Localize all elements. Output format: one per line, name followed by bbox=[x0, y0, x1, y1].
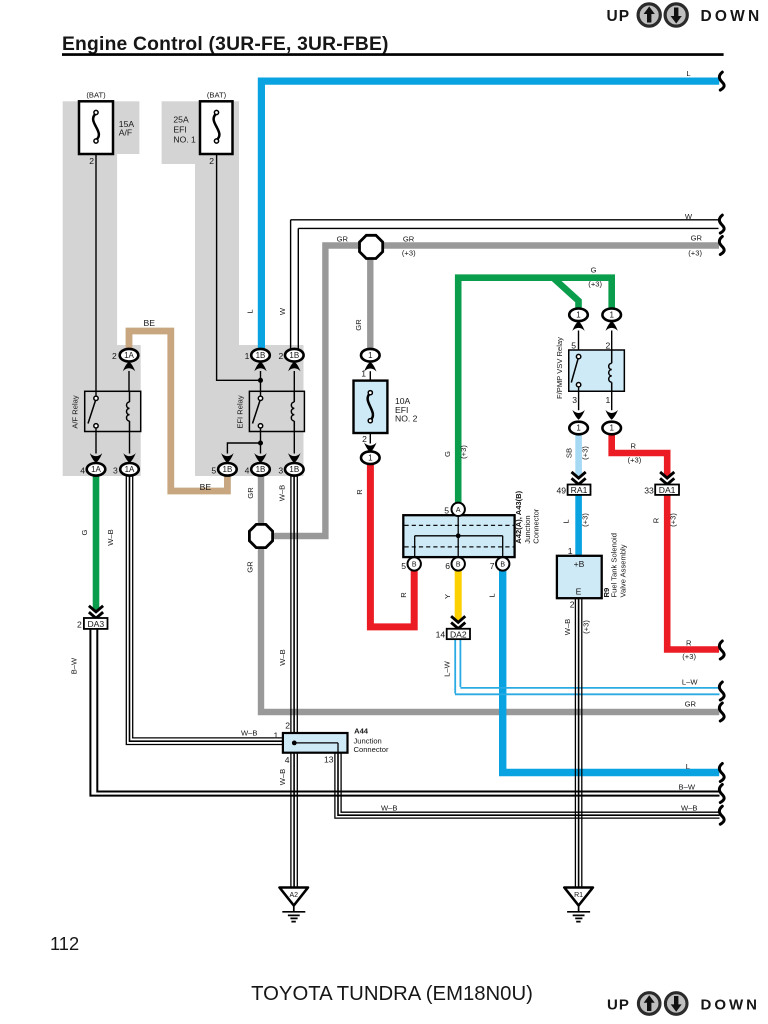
svg-text:SB: SB bbox=[565, 448, 574, 458]
svg-text:NO. 1: NO. 1 bbox=[173, 135, 196, 145]
shading block EFI relay column bbox=[162, 101, 304, 476]
svg-text:Fuel Tank Solenoid: Fuel Tank Solenoid bbox=[610, 533, 619, 597]
svg-text:L: L bbox=[488, 593, 497, 597]
svg-text:4: 4 bbox=[285, 755, 290, 765]
junction connector A44 bbox=[274, 721, 389, 766]
svg-text:Junction: Junction bbox=[523, 515, 532, 543]
svg-text:1: 1 bbox=[576, 424, 581, 433]
svg-text:1: 1 bbox=[368, 453, 373, 462]
switch contact EFI relay bbox=[253, 401, 261, 424]
svg-text:L: L bbox=[686, 762, 690, 771]
relay EFI box bbox=[227, 371, 304, 454]
svg-text:GR: GR bbox=[685, 700, 697, 709]
svg-text:1: 1 bbox=[609, 310, 614, 319]
svg-text:A: A bbox=[456, 507, 461, 514]
svg-text:GR: GR bbox=[403, 235, 415, 244]
svg-text:(+3): (+3) bbox=[628, 455, 642, 464]
svg-text:GR: GR bbox=[337, 235, 349, 244]
svg-text:GR: GR bbox=[246, 561, 255, 573]
svg-text:2: 2 bbox=[606, 341, 611, 351]
svg-text:G: G bbox=[591, 266, 597, 275]
svg-text:GR: GR bbox=[691, 234, 703, 243]
wire R DA1 to right break bbox=[667, 495, 719, 650]
svg-text:GR: GR bbox=[354, 319, 363, 331]
svg-text:UP: UP bbox=[607, 8, 631, 25]
wire G A/F relay pin4 to DA3 bbox=[93, 474, 100, 611]
wire L RA1 to R9 bbox=[575, 495, 582, 556]
connector oval 1 VSV pin1 bbox=[602, 410, 621, 434]
ground A2 bbox=[280, 888, 309, 922]
break symbols right edge bbox=[719, 72, 724, 824]
wire W-B R9 pin E to ground R1 bbox=[575, 598, 581, 887]
svg-text:5: 5 bbox=[571, 341, 576, 351]
wire SB VSV relay pin3 to RA1 bbox=[575, 433, 582, 477]
svg-text:5: 5 bbox=[444, 506, 449, 516]
svg-text:1: 1 bbox=[606, 395, 611, 405]
wire L-W pair from DA2 to right break bbox=[455, 639, 720, 694]
connector oval 1B pin5 bbox=[211, 453, 236, 476]
node B pin7 bbox=[496, 557, 509, 570]
svg-text:112: 112 bbox=[50, 933, 79, 954]
wires relay pins EFI + junction nodes bbox=[227, 371, 294, 454]
wires VSV bottom pins bbox=[579, 387, 612, 410]
wire GR octagon J5 drop to fuse 10A bbox=[367, 257, 373, 350]
svg-text:A42(A), A43(B): A42(A), A43(B) bbox=[514, 490, 523, 543]
wire G EFI relay feed to F/PMP VSV relay bbox=[458, 278, 612, 504]
svg-text:B: B bbox=[412, 562, 417, 569]
connector oval 1B pin1 bbox=[245, 349, 270, 371]
shading block A/F relay column bbox=[63, 101, 141, 476]
connector DA2 bbox=[436, 616, 470, 639]
svg-text:R: R bbox=[399, 592, 408, 598]
svg-text:1A: 1A bbox=[125, 465, 135, 474]
svg-text:F/PMP VSV Relay: F/PMP VSV Relay bbox=[555, 337, 564, 399]
svg-text:1: 1 bbox=[368, 351, 373, 360]
svg-text:(BAT): (BAT) bbox=[86, 91, 106, 100]
svg-text:3: 3 bbox=[572, 395, 577, 405]
svg-text:1: 1 bbox=[274, 731, 279, 741]
svg-text:1B: 1B bbox=[289, 351, 299, 360]
svg-text:2: 2 bbox=[209, 156, 214, 166]
fuse F2 25A EFI NO.1 bbox=[173, 91, 232, 167]
svg-text:+B: +B bbox=[574, 559, 585, 569]
wire GR bottom run to right break bbox=[261, 546, 719, 712]
connector DA3 bbox=[77, 606, 107, 630]
svg-text:L: L bbox=[246, 309, 255, 313]
svg-text:2: 2 bbox=[89, 156, 94, 166]
svg-text:33: 33 bbox=[644, 485, 654, 495]
svg-text:3: 3 bbox=[278, 466, 283, 476]
svg-text:(+3): (+3) bbox=[688, 249, 702, 258]
ground R1 bbox=[564, 888, 593, 922]
node B pin6 bbox=[452, 557, 465, 570]
svg-text:1: 1 bbox=[568, 546, 573, 556]
wire BE A/F relay pin2 to EFI relay pin5 bbox=[129, 331, 227, 491]
svg-text:Engine Control (3UR-FE, 3UR-FB: Engine Control (3UR-FE, 3UR-FBE) bbox=[62, 34, 389, 55]
wire R fuse EFI No2 to junction 5B bbox=[370, 463, 414, 627]
svg-text:DA2: DA2 bbox=[450, 629, 467, 639]
svg-text:25A: 25A bbox=[173, 115, 189, 125]
svg-text:7: 7 bbox=[490, 561, 495, 571]
svg-text:2: 2 bbox=[362, 434, 367, 444]
svg-text:3: 3 bbox=[113, 466, 118, 476]
svg-text:(+3): (+3) bbox=[581, 513, 590, 527]
fuse F3 10A EFI NO.2 bbox=[354, 381, 418, 433]
svg-text:4: 4 bbox=[245, 466, 250, 476]
svg-text:Valve Assembly: Valve Assembly bbox=[619, 544, 628, 597]
coil A/F relay bbox=[127, 391, 130, 431]
svg-text:B: B bbox=[456, 562, 461, 569]
wire W from EFI relay pin2 to right break bbox=[291, 220, 719, 350]
fuse F1 15A A/F bbox=[79, 91, 134, 167]
svg-text:W–B: W–B bbox=[681, 804, 697, 813]
svg-text:6: 6 bbox=[445, 561, 450, 571]
connector oval 1 VSV pin2 bbox=[602, 309, 621, 351]
connector oval 1 above fuse 10A bbox=[361, 349, 380, 381]
connector oval 1A pin3 bbox=[113, 453, 139, 476]
svg-text:G: G bbox=[443, 451, 452, 457]
svg-text:1A: 1A bbox=[91, 465, 101, 474]
wire fuse A/F to relay bbox=[95, 154, 97, 399]
svg-text:DOWN: DOWN bbox=[701, 997, 761, 1014]
nav UP/DOWN top bbox=[607, 4, 763, 26]
connector oval 1B pin4 bbox=[245, 453, 270, 476]
svg-text:W–B: W–B bbox=[278, 485, 287, 501]
wire W-B A44 pin13 to right break bbox=[335, 753, 720, 818]
svg-text:UP: UP bbox=[607, 997, 630, 1014]
svg-text:DA3: DA3 bbox=[87, 619, 104, 629]
svg-text:1B: 1B bbox=[256, 351, 266, 360]
svg-text:1: 1 bbox=[609, 424, 614, 433]
svg-text:1B: 1B bbox=[223, 465, 233, 474]
svg-text:1: 1 bbox=[576, 310, 581, 319]
break L top bbox=[719, 72, 724, 90]
svg-text:RA1: RA1 bbox=[571, 485, 588, 495]
svg-text:49: 49 bbox=[556, 485, 566, 495]
break GR bottom bbox=[719, 703, 724, 721]
svg-text:B–W: B–W bbox=[679, 783, 696, 792]
svg-text:(+3): (+3) bbox=[581, 446, 590, 460]
wire GR from EFI relay pin4 to octagon J6 bbox=[258, 475, 264, 526]
wire L blue battery feed top bbox=[261, 81, 719, 350]
svg-text:5: 5 bbox=[401, 561, 406, 571]
svg-text:A2: A2 bbox=[290, 892, 299, 899]
connector oval 1 VSV pin3 bbox=[569, 410, 588, 434]
svg-text:A/F Relay: A/F Relay bbox=[71, 395, 80, 429]
svg-text:(+3): (+3) bbox=[459, 445, 468, 459]
svg-text:TOYOTA TUNDRA (EM18N0U): TOYOTA TUNDRA (EM18N0U) bbox=[251, 983, 533, 1005]
wire Y junction 6B to DA2 bbox=[455, 570, 462, 622]
svg-text:R: R bbox=[355, 489, 364, 495]
svg-text:13: 13 bbox=[324, 755, 334, 765]
connector oval 1 below fuse 10A bbox=[361, 433, 380, 464]
svg-text:W–B: W–B bbox=[241, 729, 257, 738]
switch contact VSV relay bbox=[571, 359, 578, 383]
coil EFI relay bbox=[291, 391, 294, 431]
connector oval 1A pin4 bbox=[80, 453, 105, 476]
wire W-B A/F relay pin3 to A44 pin1 bbox=[126, 475, 283, 745]
svg-text:(+3): (+3) bbox=[588, 280, 602, 289]
wire fuse EFI No1 to EFI relay node bbox=[217, 154, 261, 380]
nav UP/DOWN bottom bbox=[607, 993, 760, 1015]
svg-text:DOWN: DOWN bbox=[701, 8, 763, 25]
svg-text:W–B: W–B bbox=[106, 529, 115, 545]
connector oval 1B pin2 bbox=[279, 349, 304, 371]
break L bottom bbox=[719, 764, 724, 782]
svg-text:1: 1 bbox=[245, 351, 250, 361]
svg-text:BE: BE bbox=[200, 482, 212, 492]
svg-text:L: L bbox=[561, 519, 570, 523]
svg-text:GR: GR bbox=[246, 487, 255, 499]
break GR top bbox=[719, 237, 724, 255]
wire B-W DA3 to right break bbox=[90, 629, 719, 796]
svg-text:B–W: B–W bbox=[70, 657, 79, 674]
svg-text:W–B: W–B bbox=[278, 769, 287, 785]
svg-text:G: G bbox=[80, 529, 89, 535]
connector RA1 bbox=[556, 472, 590, 495]
svg-text:1: 1 bbox=[361, 369, 366, 379]
relay A/F box bbox=[71, 371, 141, 454]
svg-text:E: E bbox=[576, 587, 582, 597]
svg-text:BE: BE bbox=[144, 318, 156, 328]
break R bbox=[719, 641, 724, 659]
svg-text:(+3): (+3) bbox=[669, 513, 678, 527]
connector oval 1A pin2 bbox=[112, 349, 138, 371]
svg-text:2: 2 bbox=[77, 619, 82, 629]
svg-text:W–B: W–B bbox=[563, 619, 572, 635]
svg-text:EFI: EFI bbox=[173, 125, 186, 135]
svg-text:W–B: W–B bbox=[278, 649, 287, 665]
svg-text:(BAT): (BAT) bbox=[207, 91, 227, 100]
svg-text:L: L bbox=[686, 69, 690, 78]
wire R VSV relay pin1 to DA1 bbox=[612, 433, 668, 477]
break W-B bbox=[719, 806, 724, 824]
wires relay pins A/F bbox=[96, 371, 130, 454]
svg-text:R: R bbox=[631, 442, 637, 451]
svg-text:R: R bbox=[651, 517, 660, 523]
junction connector A42(A) A43(B) bbox=[401, 490, 540, 571]
svg-text:A/F: A/F bbox=[119, 127, 132, 137]
svg-text:W: W bbox=[685, 212, 693, 221]
svg-text:2: 2 bbox=[112, 351, 117, 361]
switch contact A/F relay bbox=[88, 401, 96, 424]
svg-text:1B: 1B bbox=[256, 465, 266, 474]
svg-text:NO. 2: NO. 2 bbox=[395, 414, 418, 424]
svg-text:Y: Y bbox=[443, 594, 452, 599]
svg-text:W: W bbox=[278, 307, 287, 315]
node B pin5 bbox=[408, 557, 421, 570]
svg-text:(+3): (+3) bbox=[682, 652, 696, 661]
svg-text:4: 4 bbox=[80, 466, 85, 476]
svg-text:Connector: Connector bbox=[354, 745, 390, 754]
connector DA1 bbox=[644, 472, 679, 495]
svg-text:Connector: Connector bbox=[532, 508, 541, 544]
break B-W bbox=[719, 785, 724, 803]
svg-text:A44: A44 bbox=[354, 727, 369, 736]
svg-text:DA1: DA1 bbox=[659, 485, 676, 495]
svg-text:2: 2 bbox=[570, 600, 575, 610]
svg-text:2: 2 bbox=[279, 351, 284, 361]
svg-text:5: 5 bbox=[211, 466, 216, 476]
svg-text:W–B: W–B bbox=[381, 804, 397, 813]
svg-text:(+3): (+3) bbox=[402, 248, 416, 257]
svg-text:(+3): (+3) bbox=[582, 620, 591, 634]
relay F/PMP VSV box bbox=[555, 337, 624, 410]
svg-text:EFI Relay: EFI Relay bbox=[235, 395, 244, 429]
coil VSV relay bbox=[609, 350, 612, 391]
svg-text:R: R bbox=[686, 638, 692, 647]
svg-text:1A: 1A bbox=[124, 351, 134, 360]
svg-text:L–W: L–W bbox=[443, 660, 452, 676]
svg-text:L–W: L–W bbox=[682, 678, 698, 687]
solenoid R9 Fuel Tank Solenoid Valve Assembly bbox=[557, 533, 628, 609]
wire W-B EFI relay pin3 through A44 to ground A2 bbox=[291, 475, 297, 888]
break L-W bbox=[719, 682, 724, 700]
svg-text:2: 2 bbox=[285, 721, 290, 731]
wire L junction 7B to right break bbox=[503, 570, 720, 773]
connector oval 1B pin3 bbox=[278, 453, 303, 476]
svg-text:R1: R1 bbox=[574, 892, 583, 899]
octagon junction J5 bbox=[360, 235, 383, 258]
wire GR main horizontal + vertical riser bbox=[271, 246, 719, 537]
node A pin5 bbox=[452, 503, 465, 516]
svg-text:B: B bbox=[500, 562, 505, 569]
svg-text:14: 14 bbox=[436, 630, 446, 640]
octagon junction J6 bbox=[249, 524, 272, 547]
svg-text:1B: 1B bbox=[289, 465, 299, 474]
connector oval 1 VSV pin5 bbox=[569, 309, 588, 351]
break W bbox=[719, 215, 724, 233]
